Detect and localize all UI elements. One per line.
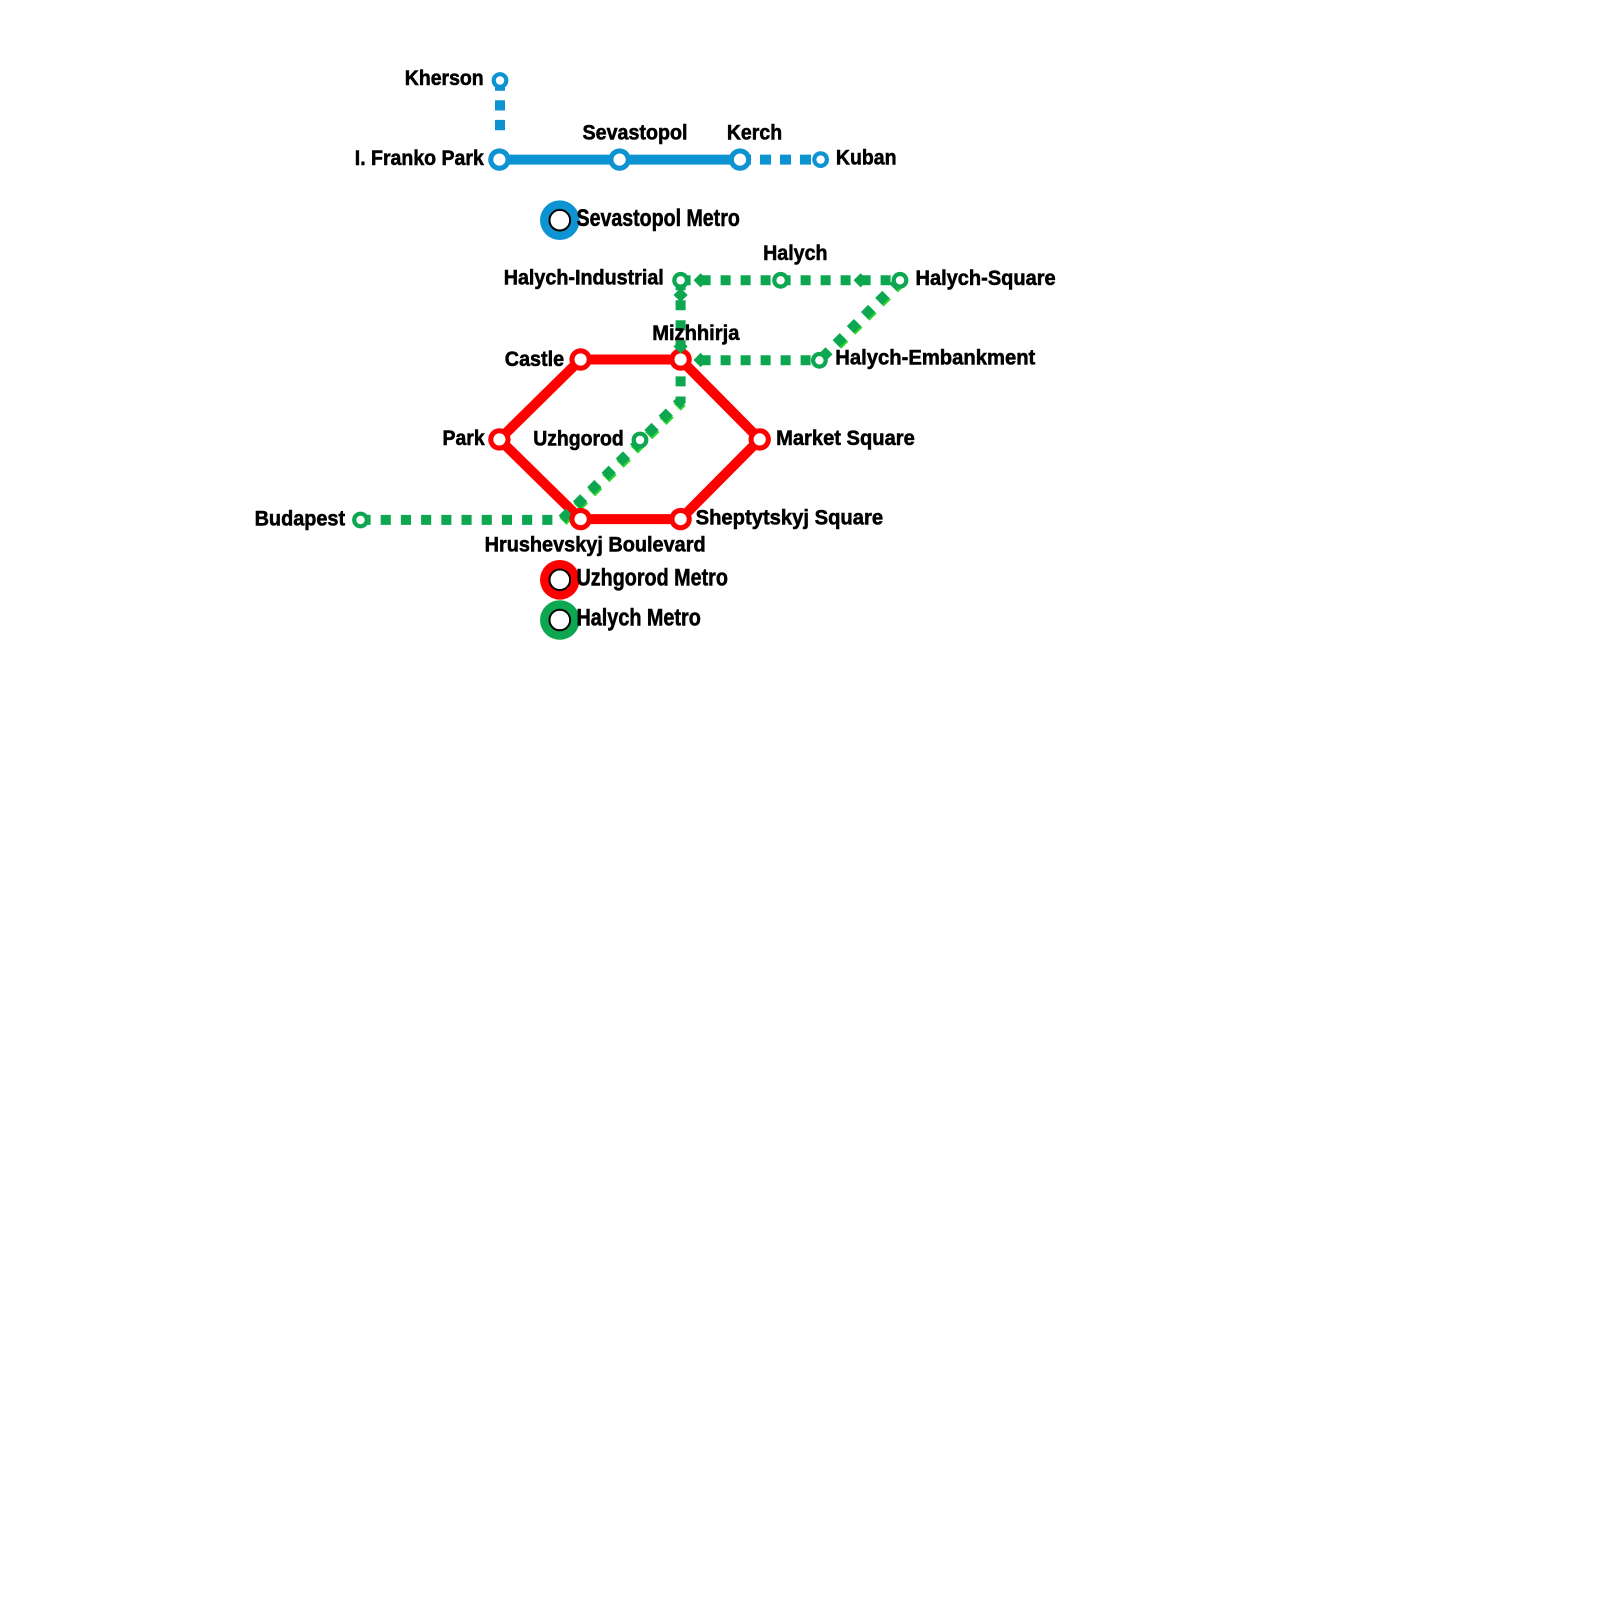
red station Sheptytskyj Square [669,508,691,530]
green dashed Budapest - Uzhgorod - Mizhhirja (lime underlay on diagonal) [563,402,682,521]
blue station Sevastopol [608,148,630,170]
svg-text:Sevastopol: Sevastopol [583,121,688,145]
svg-text:Halych-Square: Halych-Square [916,266,1056,290]
green station Halych [772,272,789,289]
green dashed Budapest - Uzhgorod - Mizhhirja [361,360,681,520]
red metro loop line [499,360,759,520]
svg-text:Halych: Halych [763,241,827,265]
legend Halych Metro symbol [540,600,580,640]
blue station I. Franko Park [488,148,510,170]
legend Uzhgorod Metro symbol [540,560,580,600]
green terminus Budapest [352,512,369,529]
svg-text:I. Franko Park: I. Franko Park [355,146,484,170]
green station Halych-Industrial [672,272,689,289]
red station Hrushevskyj Boulevard [569,508,591,530]
svg-text:Halych-Embankment: Halych-Embankment [835,345,1035,369]
svg-text:Sevastopol Metro: Sevastopol Metro [577,205,740,232]
green diamond dash above Mizhhirja [674,339,688,353]
green dashed Halych-Square - Halych-Embankment (lime underlay) [834,282,901,349]
svg-text:Park: Park [443,426,485,450]
svg-text:Market Square: Market Square [776,426,915,450]
svg-text:Mizhhirja: Mizhhirja [652,321,739,345]
svg-text:Hrushevskyj Boulevard: Hrushevskyj Boulevard [485,532,706,556]
green diamond dash below Halych-Industrial [674,288,688,302]
green diamond dash left of Halych-Square [854,273,868,287]
green station Uzhgorod [632,432,649,449]
svg-text:Uzhgorod: Uzhgorod [533,426,624,450]
svg-text:Kherson: Kherson [405,66,484,90]
green dashed Halych-Industrial - Halych-Square [681,275,900,285]
svg-text:Halych Metro: Halych Metro [577,605,701,632]
green station Halych-Square [892,272,909,289]
green dashed Mizhhirja - Halych-Embankment [681,355,820,365]
blue station Kerch [729,148,751,170]
blue terminus Kherson [492,72,509,89]
red station Castle [569,348,591,370]
red station Market Square [749,428,771,450]
green dashed Halych-Industrial - Mizhhirja [676,280,686,360]
svg-text:Castle: Castle [505,347,564,371]
green station Halych-Embankment [811,352,828,369]
svg-text:Kerch: Kerch [727,121,782,145]
blue dashed Kherson - I. Franko Park [495,81,505,131]
svg-text:Kuban: Kuban [836,146,897,170]
legend Sevastopol Metro symbol [540,200,580,240]
red station Park [488,428,510,450]
green diamond dash right of Halych-Industrial [694,273,708,287]
blue line solid I. Franko Park - Kerch [499,155,740,165]
green dashed Halych-Square - Halych-Embankment [819,280,900,360]
svg-text:Uzhgorod Metro: Uzhgorod Metro [577,565,728,592]
svg-text:Budapest: Budapest [255,506,346,530]
svg-text:Sheptytskyj Square: Sheptytskyj Square [696,505,884,529]
blue terminus Kuban [812,151,829,168]
svg-text:Halych-Industrial: Halych-Industrial [504,266,664,290]
green diamond dash right of Mizhhirja [694,353,708,367]
blue dashed Kerch - Kuban [740,155,817,165]
red station Mizhhirja [669,348,691,370]
